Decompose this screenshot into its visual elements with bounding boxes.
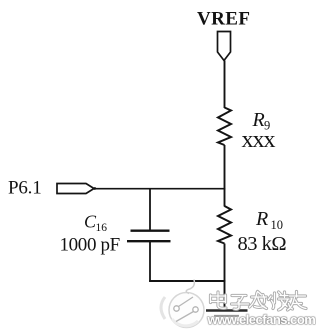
svg-text:16: 16 [96, 222, 108, 234]
svg-text:83 kΩ: 83 kΩ [238, 233, 287, 255]
wire R10 to ground [224, 244, 226, 311]
svg-text:P6.1: P6.1 [8, 178, 42, 199]
capacitor C16 bottom lead [149, 242, 151, 282]
port P6.1 [57, 184, 94, 194]
capacitor C16 [131, 229, 170, 231]
ground [206, 309, 248, 312]
port VREF terminal [218, 32, 231, 61]
svg-text:www.elecfans.com: www.elecfans.com [207, 312, 316, 327]
wire VREF to R9 [224, 61, 226, 109]
svg-text:R: R [255, 208, 268, 230]
watermark logo [161, 280, 204, 328]
capacitor C16 top lead [149, 189, 151, 230]
wire P6.1 to node [96, 188, 225, 190]
resistor R10 [218, 206, 231, 244]
resistor R9 [218, 108, 231, 146]
svg-text:10: 10 [271, 218, 284, 232]
svg-text:1000 pF: 1000 pF [60, 235, 120, 256]
watermark text [211, 292, 307, 311]
wire R9 to node [224, 145, 226, 207]
svg-text:VREF: VREF [197, 9, 250, 30]
wire node bottom [149, 280, 225, 282]
svg-text:xxx: xxx [242, 127, 276, 153]
